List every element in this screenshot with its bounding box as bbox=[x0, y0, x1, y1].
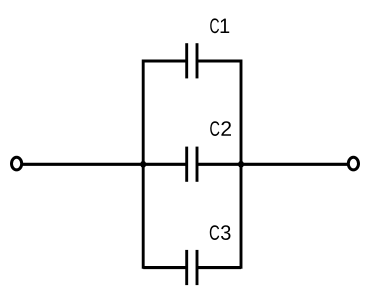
wire bottom branch right bbox=[197, 266, 241, 269]
capacitor C2 bbox=[187, 147, 197, 182]
wire top branch left bbox=[143, 59, 187, 62]
wire right vertical rail bbox=[240, 60, 243, 269]
terminal left bbox=[12, 157, 22, 170]
capacitor C3 bbox=[187, 250, 197, 285]
capacitor C1 bbox=[187, 43, 197, 78]
node junction right bbox=[238, 161, 244, 168]
wire top branch right bbox=[197, 59, 241, 62]
label C3 bbox=[210, 225, 231, 240]
wire main right segment bbox=[197, 163, 349, 166]
wire left vertical rail bbox=[142, 60, 145, 269]
terminal right bbox=[348, 157, 358, 170]
label C2 bbox=[210, 121, 231, 136]
node junction left bbox=[140, 161, 146, 168]
wire main left segment bbox=[22, 163, 187, 166]
wire bottom branch left bbox=[143, 266, 187, 269]
label C1 bbox=[210, 18, 229, 33]
